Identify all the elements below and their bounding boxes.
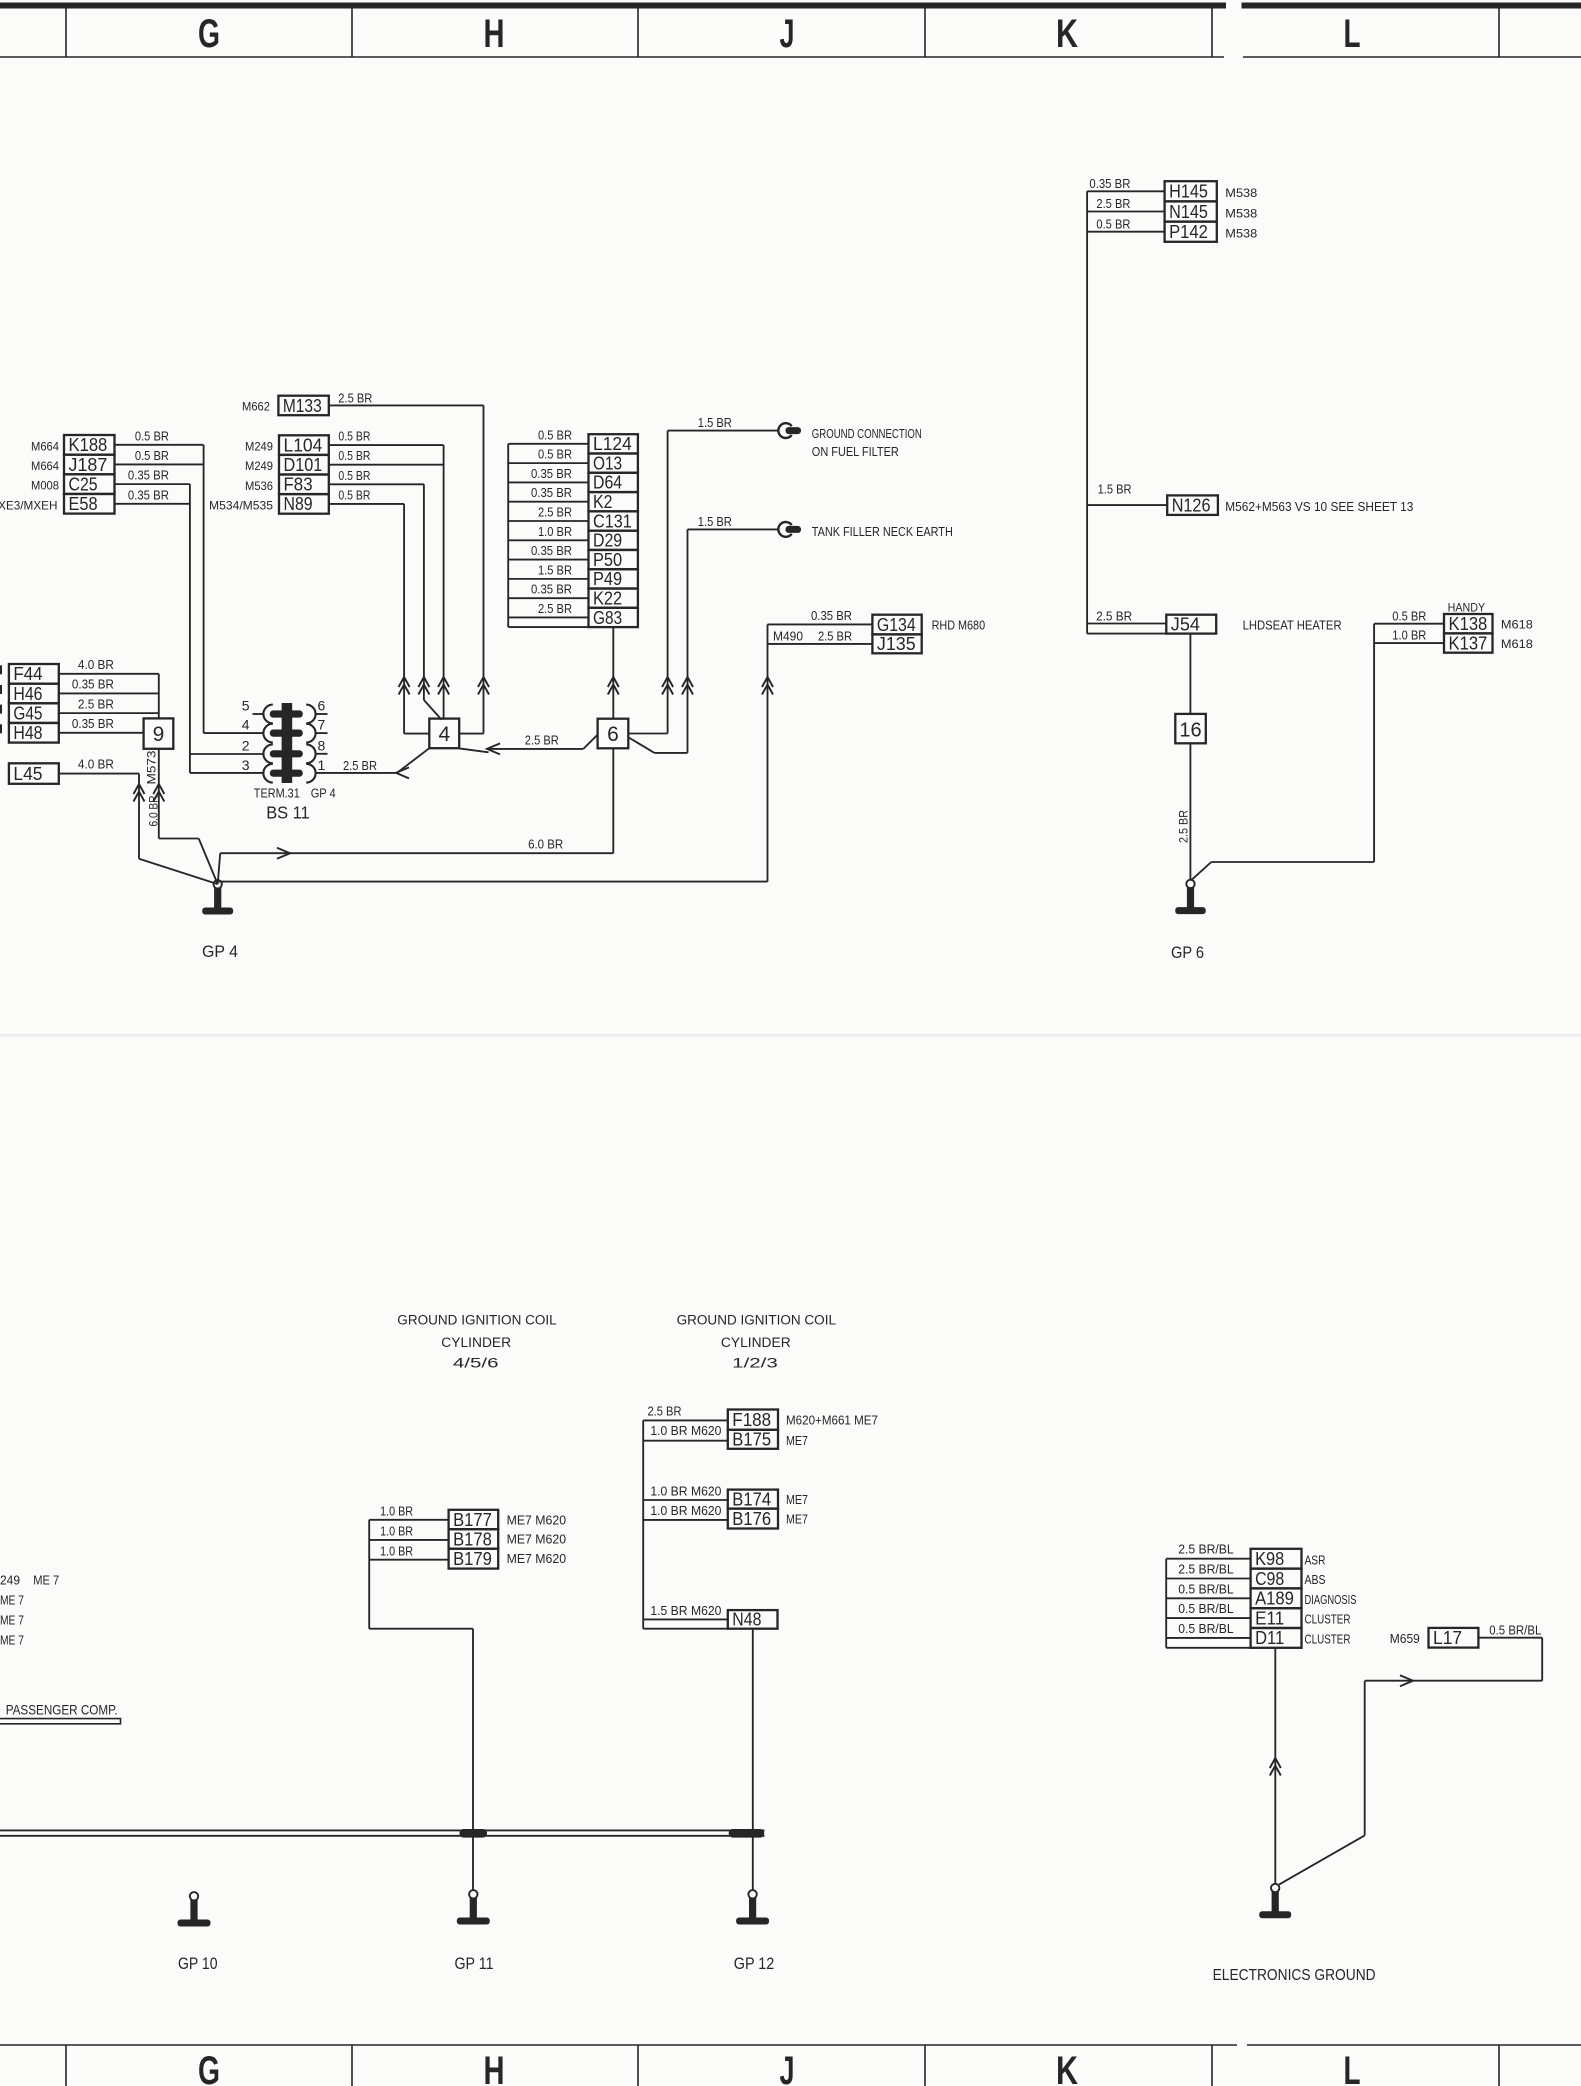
svg-text:P142: P142 <box>1169 221 1208 242</box>
connector P49 <box>589 569 638 588</box>
wire 1.0 BR to B179 <box>369 1559 448 1561</box>
junction blob GP12 <box>729 1829 765 1838</box>
svg-text:8: 8 <box>318 737 326 753</box>
connector K138 <box>1444 614 1493 633</box>
svg-text:5: 5 <box>242 698 250 714</box>
svg-text:0.35 BR: 0.35 BR <box>128 469 169 483</box>
wire N89 to bus <box>329 503 404 505</box>
svg-text:GP 12: GP 12 <box>734 1955 775 1973</box>
wire node16 down to GP6 <box>1189 743 1191 880</box>
wire D11 bus down to electronics ground <box>1274 1648 1276 1884</box>
wire double ground rail (lower) <box>0 1835 765 1837</box>
arrow on L17 wire <box>1400 1675 1413 1686</box>
svg-text:M538: M538 <box>1225 186 1257 200</box>
clipped label fragment left of G45 <box>0 705 2 714</box>
svg-text:M620+M661 ME7: M620+M661 ME7 <box>786 1414 878 1428</box>
connector C98 <box>1251 1569 1302 1589</box>
svg-text:L45: L45 <box>13 763 42 784</box>
svg-text:L17: L17 <box>1433 1627 1462 1648</box>
wire D64 from left bus <box>508 481 588 483</box>
svg-text:ME7: ME7 <box>786 1434 808 1448</box>
border: bottom column dividers <box>65 2045 67 2086</box>
svg-text:2.5 BR: 2.5 BR <box>648 1405 682 1419</box>
svg-text:H48: H48 <box>13 722 42 743</box>
connector K98 <box>1251 1549 1302 1569</box>
connector P142 <box>1165 222 1217 242</box>
connector K188 <box>64 435 115 455</box>
svg-text:0.5 BR: 0.5 BR <box>135 429 169 443</box>
wire GP4 riser to 6.0BR wire <box>218 853 221 884</box>
connector C131 <box>589 511 638 530</box>
wire diagonal to node6 left edge <box>583 735 597 749</box>
svg-text:P50: P50 <box>593 549 622 570</box>
svg-text:RHD M680: RHD M680 <box>932 619 986 633</box>
svg-text:0.5 BR: 0.5 BR <box>338 430 370 444</box>
connector J135 <box>872 634 921 653</box>
svg-text:GROUND CONNECTION: GROUND CONNECTION <box>812 426 922 441</box>
connector D64 <box>589 473 638 492</box>
wire stack left bus vertical <box>507 444 509 627</box>
svg-text:G83: G83 <box>593 607 622 628</box>
svg-text:L: L <box>1344 2049 1361 2086</box>
wire bus C25/E58 down to BS11 <box>189 484 191 773</box>
svg-text:2.5 BR: 2.5 BR <box>1176 810 1190 843</box>
svg-text:BS 11: BS 11 <box>266 803 310 823</box>
wire 0.5 BR/BL to E11 <box>1166 1617 1250 1619</box>
connector K2 <box>589 492 638 511</box>
wire 6.0 BR from GP4 junction <box>220 852 613 854</box>
wire D29 from left bus <box>508 539 588 541</box>
svg-text:B175: B175 <box>732 1429 771 1450</box>
svg-text:H: H <box>484 12 505 56</box>
connector BS11 contact bar row 3 <box>270 750 303 757</box>
connector D29 <box>589 531 638 550</box>
connector BS11 contact bar row 4 <box>270 770 303 777</box>
svg-text:C25: C25 <box>69 473 98 494</box>
BS11 pin 5 stub <box>253 713 264 715</box>
svg-text:GP 6: GP 6 <box>1171 944 1204 962</box>
wire stack bus bottom closing line <box>508 626 588 628</box>
connector BS11 contact bar row 1 <box>270 710 303 717</box>
connector D11 <box>1251 1628 1302 1648</box>
ground lug tank filler neck <box>778 522 791 537</box>
wire diagonal node4 to pin1 wire <box>397 748 429 773</box>
wire bus L104/D101 down into node 4 <box>443 445 445 719</box>
wire M133 to bus <box>329 404 484 406</box>
svg-text:K22: K22 <box>593 587 622 608</box>
connector B178 <box>449 1529 499 1549</box>
svg-text:0.5 BR: 0.5 BR <box>1392 609 1426 623</box>
wire diagonal to GP6 <box>1191 862 1212 881</box>
connector B176 <box>728 1509 778 1529</box>
wire H46 to node9 bus <box>59 692 159 694</box>
wire into node 4 right side <box>459 733 483 735</box>
svg-text:A189: A189 <box>1255 1588 1294 1609</box>
svg-text:K138: K138 <box>1449 613 1488 634</box>
svg-text:CLUSTER: CLUSTER <box>1305 1613 1351 1627</box>
svg-text:2.5 BR: 2.5 BR <box>538 602 572 616</box>
wire F83 diagonal into node 4 <box>424 700 442 720</box>
svg-text:J135: J135 <box>877 633 916 654</box>
svg-text:GROUND IGNITION COIL: GROUND IGNITION COIL <box>677 1313 837 1328</box>
svg-text:F188: F188 <box>732 1409 771 1430</box>
wire L124 from left bus <box>508 443 588 445</box>
svg-text:0.5 BR: 0.5 BR <box>538 428 572 442</box>
wire bus N89 down <box>403 504 405 734</box>
svg-text:6.0 BR: 6.0 BR <box>528 838 563 852</box>
connector L124 <box>589 434 638 453</box>
wire 2.5 BR/BL to C98 <box>1166 1578 1250 1580</box>
svg-text:ME7: ME7 <box>786 1493 808 1507</box>
wire 0.5 BR/BL to D11 <box>1166 1637 1250 1639</box>
wire B177-group bus horizontal <box>369 1628 473 1630</box>
svg-text:K137: K137 <box>1449 632 1488 653</box>
svg-text:J187: J187 <box>69 454 108 475</box>
border: bottom frame line <box>0 2044 1237 2046</box>
svg-text:G: G <box>198 12 220 56</box>
svg-text:ME7 M620: ME7 M620 <box>507 1552 567 1566</box>
wire bus K188/J187 down to BS11 pin4 <box>203 445 205 733</box>
svg-text:M536: M536 <box>245 479 273 493</box>
svg-text:N48: N48 <box>732 1609 761 1630</box>
svg-text:1: 1 <box>318 757 326 773</box>
svg-text:M618: M618 <box>1501 618 1533 632</box>
ground GP11 <box>469 1890 477 1898</box>
svg-text:M573: M573 <box>144 750 158 784</box>
wire H48 into node 9 <box>59 732 144 734</box>
svg-text:CYLINDER: CYLINDER <box>721 1335 791 1350</box>
wire F83 to bus <box>329 483 424 485</box>
svg-text:2.5 BR: 2.5 BR <box>78 697 114 711</box>
svg-text:1.0 BR M620: 1.0 BR M620 <box>650 1484 721 1498</box>
svg-text:N89: N89 <box>284 493 313 514</box>
wire 1.0 BR to K137 <box>1374 642 1444 644</box>
wire K98-group closing line <box>1166 1647 1250 1649</box>
svg-text:6.0 BR: 6.0 BR <box>146 795 160 826</box>
svg-text:1.5 BR: 1.5 BR <box>1098 483 1132 497</box>
wire GP11 bus down <box>472 1629 474 1891</box>
connector H145 <box>1165 181 1217 201</box>
wire tap to BS11 pin 2 <box>190 753 264 755</box>
wire N126 from bus <box>1087 504 1167 506</box>
wire L17 bus down left <box>1364 1681 1366 1836</box>
svg-text:1.0 BR: 1.0 BR <box>380 1544 413 1558</box>
connector K22 <box>589 589 638 608</box>
ground lug on fuel filter <box>778 423 791 438</box>
svg-text:ME7 M620: ME7 M620 <box>507 1513 567 1527</box>
connector B175 <box>728 1430 778 1449</box>
svg-text:PASSENGER COMP.: PASSENGER COMP. <box>6 1701 118 1717</box>
svg-text:4: 4 <box>438 723 450 746</box>
connector D101 <box>279 455 329 475</box>
svg-text:G45: G45 <box>13 702 42 723</box>
svg-text:M538: M538 <box>1225 206 1257 220</box>
svg-text:M538: M538 <box>1225 227 1257 241</box>
svg-text:3: 3 <box>242 757 250 773</box>
wire L45 bus down <box>138 774 140 859</box>
wire fuel-filter bus up <box>667 431 669 734</box>
svg-text:TANK FILLER NECK EARTH: TANK FILLER NECK EARTH <box>812 524 953 539</box>
wire node9 diagonal to GP4 <box>199 839 218 885</box>
wire 0.5 BR to K138 <box>1374 623 1444 625</box>
wire 1.5 BR to fuel filter lug <box>668 430 779 432</box>
connector BS11 centre bar <box>282 703 293 783</box>
node 9 (junction box) <box>144 718 174 748</box>
arrow up on fuel-filter bus <box>662 677 673 687</box>
svg-text:0.5 BR/BL: 0.5 BR/BL <box>1178 1602 1234 1616</box>
ground GP4 <box>214 880 222 888</box>
svg-text:0.5 BR/BL: 0.5 BR/BL <box>1178 1622 1234 1636</box>
svg-text:N145: N145 <box>1169 201 1208 222</box>
connector F188 <box>728 1410 778 1430</box>
wire K22 from left bus <box>508 597 588 599</box>
wire P50 from left bus <box>508 559 588 561</box>
BS11 right hook row 2 <box>306 724 315 743</box>
svg-text:N126: N126 <box>1172 494 1211 515</box>
clipped label fragment left of H48 <box>0 724 2 733</box>
svg-text:0.5 BR: 0.5 BR <box>338 449 370 463</box>
arrow up on F83 bus <box>418 677 429 687</box>
svg-text:1.5 BR: 1.5 BR <box>538 563 572 577</box>
svg-text:ON FUEL FILTER: ON FUEL FILTER <box>812 444 899 459</box>
svg-text:M008: M008 <box>31 479 59 493</box>
arrow up on M133 bus <box>478 677 489 687</box>
wire 2.5 BR to F188 <box>643 1419 728 1421</box>
svg-text:H145: H145 <box>1169 181 1208 202</box>
svg-text:J: J <box>780 2049 795 2086</box>
connector B177 <box>449 1510 499 1529</box>
wire J54 cell closing line <box>1087 633 1166 635</box>
svg-text:0.35 BR: 0.35 BR <box>531 583 572 597</box>
wire 1.0 BR to B175 <box>643 1440 728 1442</box>
wire G83 from left bus <box>508 616 588 618</box>
arrow up on D11 bus <box>1270 1758 1281 1768</box>
BS11 left hook row 1 <box>263 705 272 724</box>
connector BS11 contact bar row 2 <box>270 730 303 737</box>
wire J54 down to node 16 <box>1189 634 1191 714</box>
BS11 left hook row 2 <box>263 724 272 743</box>
wire G83 down to node 6 <box>612 627 614 719</box>
connector N89 <box>279 494 329 514</box>
svg-text:0.35 BR: 0.35 BR <box>531 467 572 481</box>
svg-text:ME7: ME7 <box>786 1513 808 1527</box>
svg-text:ME 7: ME 7 <box>0 1594 24 1608</box>
wire 1.0 BR to B174 <box>643 1499 728 1501</box>
svg-text:7: 7 <box>318 717 326 733</box>
svg-text:M662: M662 <box>242 400 270 414</box>
wire bus F83 down <box>423 484 425 700</box>
connector K137 <box>1444 633 1493 652</box>
connector O13 <box>589 453 638 472</box>
wire node9 bus corner <box>159 838 199 840</box>
svg-text:K: K <box>1056 2049 1078 2086</box>
svg-text:2: 2 <box>242 737 250 753</box>
wire right main bus vertical <box>1086 191 1088 633</box>
svg-text:M534/M535: M534/M535 <box>209 498 273 512</box>
connector H48 <box>9 723 59 743</box>
svg-text:M249: M249 <box>245 459 273 473</box>
connector L45 <box>9 763 59 784</box>
svg-text:B176: B176 <box>732 1508 771 1529</box>
connector B179 <box>449 1549 499 1569</box>
svg-text:ME 7: ME 7 <box>0 1633 24 1647</box>
wire L17 bus down <box>1541 1638 1543 1681</box>
svg-text:GP 4: GP 4 <box>311 786 336 801</box>
wire O13 from left bus <box>508 462 588 464</box>
wire diagonal to electronics ground <box>1279 1835 1365 1884</box>
svg-text:2.5 BR: 2.5 BR <box>338 392 372 406</box>
svg-text:249: 249 <box>0 1573 20 1587</box>
connector E11 <box>1251 1608 1302 1628</box>
svg-text:2.5 BR: 2.5 BR <box>818 629 852 643</box>
connector F83 <box>279 475 329 495</box>
wire P142 from bus <box>1087 231 1165 233</box>
BS11 right hook row 3 <box>306 744 315 763</box>
svg-text:0.5 BR: 0.5 BR <box>1096 217 1130 231</box>
svg-text:0.35 BR: 0.35 BR <box>128 488 169 502</box>
wire tank bus horizontal <box>655 752 688 754</box>
connector N145 <box>1165 201 1217 221</box>
connector G83 <box>589 608 638 627</box>
BS11 right hook row 1 <box>306 705 315 724</box>
svg-text:H: H <box>484 2049 505 2086</box>
svg-text:1.0 BR: 1.0 BR <box>380 1504 413 1518</box>
arrow on pin1 wire <box>396 767 409 778</box>
wire J187 to bus <box>115 463 204 465</box>
BS11 right hook row 4 <box>306 764 315 783</box>
svg-text:16: 16 <box>1179 719 1201 741</box>
svg-text:0.35 BR: 0.35 BR <box>72 678 114 692</box>
svg-text:ABS: ABS <box>1305 1573 1326 1587</box>
BS11 pin 7 stub <box>316 732 328 734</box>
wire B177-group bus vertical <box>368 1520 370 1629</box>
underline box PASSENGER COMP. <box>0 1719 121 1724</box>
wire K188 to node 9-bus <box>115 444 204 446</box>
svg-text:K98: K98 <box>1255 1548 1284 1569</box>
wire 2.5 BR/BL to K98 <box>1166 1558 1250 1560</box>
svg-text:B178: B178 <box>453 1528 492 1549</box>
wire G45 to node9 bus <box>59 712 159 714</box>
svg-text:C131: C131 <box>593 510 632 531</box>
wire L45 diagonal to GP4 <box>139 859 218 884</box>
svg-text:ASR: ASR <box>1305 1553 1326 1567</box>
wire bus M133 down to node 4 <box>483 405 485 733</box>
svg-text:2.5 BR/BL: 2.5 BR/BL <box>1178 1563 1234 1577</box>
svg-text:LHDSEAT HEATER: LHDSEAT HEATER <box>1243 618 1342 633</box>
wire 2.5 BR node6 to node4 <box>487 748 583 750</box>
wire N48 cell closing line <box>643 1628 728 1630</box>
wire node6 right to fuel-filter bus <box>628 733 667 735</box>
svg-text:K188: K188 <box>69 434 108 455</box>
svg-text:2.5 BR/BL: 2.5 BR/BL <box>1178 1543 1234 1557</box>
svg-text:2.5 BR: 2.5 BR <box>343 759 377 773</box>
svg-text:B174: B174 <box>732 1488 771 1509</box>
svg-text:0.5 BR: 0.5 BR <box>338 469 370 483</box>
wire D101 to bus <box>329 464 444 466</box>
svg-text:2.5 BR: 2.5 BR <box>538 506 572 520</box>
connector H46 <box>9 684 59 704</box>
wire corner to BS11 pin 3 <box>190 772 264 774</box>
svg-text:1.0 BR: 1.0 BR <box>538 525 572 539</box>
border: top header bottom line <box>0 56 1224 58</box>
junction blob GP11 <box>460 1829 488 1838</box>
svg-text:P49: P49 <box>593 568 622 589</box>
connector J187 <box>64 455 115 475</box>
svg-text:MXE3/MXEH: MXE3/MXEH <box>0 498 57 512</box>
svg-text:GROUND IGNITION COIL: GROUND IGNITION COIL <box>397 1313 557 1328</box>
wire P49 from left bus <box>508 578 588 580</box>
wire K2 from left bus <box>508 501 588 503</box>
wire 1.0 BR to B177 <box>369 1519 448 1521</box>
svg-text:O13: O13 <box>593 452 622 473</box>
svg-text:G: G <box>198 2049 220 2086</box>
svg-text:1/2/3: 1/2/3 <box>732 1356 778 1371</box>
svg-text:L: L <box>1344 12 1361 56</box>
svg-text:1.0 BR M620: 1.0 BR M620 <box>650 1504 721 1518</box>
svg-text:GP 11: GP 11 <box>455 1955 494 1973</box>
connector L104 <box>279 435 329 455</box>
svg-text:E58: E58 <box>69 493 98 514</box>
wire L104 to bus <box>329 444 444 446</box>
svg-text:0.5 BR/BL: 0.5 BR/BL <box>1178 1582 1234 1596</box>
connector J54 <box>1166 615 1216 634</box>
node 16 (junction box) <box>1175 714 1206 743</box>
svg-text:0.35 BR: 0.35 BR <box>811 609 852 623</box>
border: top header column dividers <box>65 8 67 57</box>
connector N126 <box>1167 495 1218 515</box>
svg-text:F83: F83 <box>284 474 313 495</box>
svg-text:ELECTRONICS GROUND: ELECTRONICS GROUND <box>1213 1967 1376 1984</box>
wire node9 bottom bus <box>158 749 160 839</box>
connector C25 <box>64 474 115 494</box>
svg-text:L124: L124 <box>593 433 632 454</box>
svg-text:H46: H46 <box>13 683 42 704</box>
svg-text:M664: M664 <box>31 439 59 453</box>
wire 2.5 BR to J135 <box>768 643 873 645</box>
arrow up on tank bus <box>682 677 693 687</box>
wire diagonal node4 corner <box>459 748 488 752</box>
BS11 pin 8 stub <box>316 753 328 755</box>
svg-text:1.0 BR: 1.0 BR <box>1392 629 1426 643</box>
wire G134/J135 bus down <box>767 624 769 881</box>
wire 0.5 BR/BL to A189 <box>1166 1597 1250 1599</box>
svg-text:CLUSTER: CLUSTER <box>1305 1633 1351 1647</box>
BS11 left hook row 3 <box>263 744 272 763</box>
svg-text:0.5 BR/BL: 0.5 BR/BL <box>1489 1623 1541 1637</box>
svg-text:M133: M133 <box>283 395 322 416</box>
wire L17 horizontal <box>1365 1680 1543 1682</box>
svg-text:J: J <box>780 12 795 56</box>
wire node6 bottom bus <box>612 748 614 853</box>
svg-text:E11: E11 <box>1255 1607 1284 1628</box>
svg-text:GP 10: GP 10 <box>178 1955 218 1973</box>
svg-text:D11: D11 <box>1255 1627 1284 1648</box>
clipped label fragment left of F44 <box>0 665 2 674</box>
wire 0.35 BR to G134 <box>768 623 873 625</box>
wire GP4 lower horizontal to G134 bus <box>219 881 768 883</box>
svg-text:GP 4: GP 4 <box>202 943 238 961</box>
arrow up on G134 bus <box>762 677 773 687</box>
ground electronics <box>1271 1884 1279 1892</box>
svg-text:2.5 BR: 2.5 BR <box>1096 609 1132 623</box>
svg-text:M249: M249 <box>245 440 273 454</box>
svg-text:1.0 BR M620: 1.0 BR M620 <box>650 1424 721 1438</box>
wire N89 bus into node 4 left side <box>404 733 429 735</box>
connector B174 <box>728 1490 778 1509</box>
svg-text:M618: M618 <box>1501 637 1533 651</box>
svg-text:4/5/6: 4/5/6 <box>453 1356 499 1371</box>
arrow up on node9 bus <box>153 784 164 794</box>
